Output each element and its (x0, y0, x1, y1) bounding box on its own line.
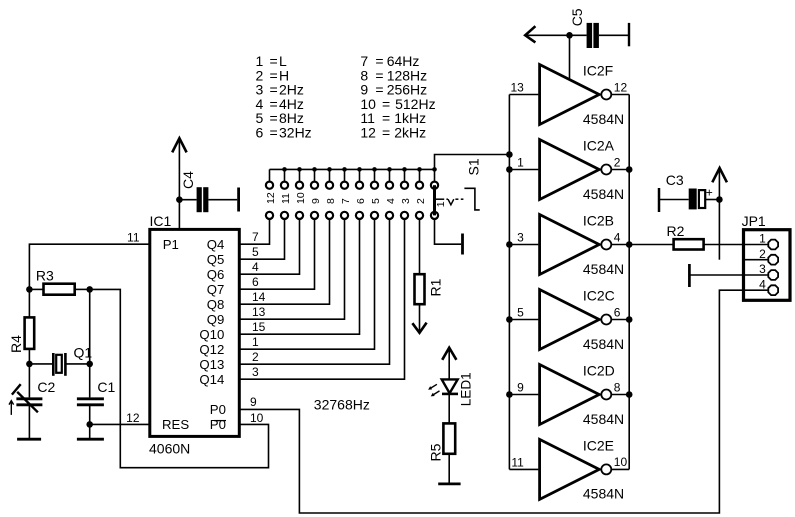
JP1 pins 1-4 (744, 232, 779, 295)
wire Q1 node down to C1 (89, 364, 91, 398)
resistor R4 (8, 289, 34, 364)
svg-text:P1: P1 (163, 237, 179, 252)
S1 actuator symbol (435, 188, 480, 210)
svg-text:4584N: 4584N (583, 111, 624, 127)
ground under C2 (17, 438, 41, 441)
S1 wiper bar at position 1 (433, 185, 436, 215)
S1 position 1 label (435, 201, 447, 207)
svg-text:Q5: Q5 (207, 252, 225, 267)
svg-text:P0: P0 (210, 402, 226, 417)
wire power to IC2F gate (569, 35, 571, 80)
svg-text:R1: R1 (428, 278, 444, 296)
svg-text:Q10: Q10 (199, 327, 224, 342)
wire IC1 pin 3 (Q14) to S1 position 3 (239, 219, 404, 379)
svg-text:+: + (706, 186, 713, 200)
wire C1 to RES node (89, 405, 91, 425)
svg-text:12: 12 (614, 80, 628, 94)
node: C1 bottom / RES wire (86, 421, 93, 428)
svg-text:C1: C1 (97, 379, 115, 395)
svg-text:=: = (270, 125, 278, 141)
supply arrow VCC above LED1 (442, 348, 456, 380)
svg-text:15: 15 (252, 320, 266, 334)
inverter input bus (508, 95, 510, 470)
svg-text:IC1: IC1 (150, 213, 172, 229)
svg-text:Q14: Q14 (199, 372, 224, 387)
S1 position number labels (265, 192, 427, 204)
svg-text:9: 9 (310, 198, 322, 204)
LED LED1 (428, 372, 474, 406)
node: VCC / C3 junction (716, 196, 723, 203)
svg-text:Q4: Q4 (207, 237, 225, 252)
supply arrow VCC above C4 (172, 138, 186, 229)
pin number 12 (RES) (126, 411, 140, 425)
wire IC1 pin 14 (Q8) to S1 position 8 (239, 219, 329, 304)
wire IC1 pin 1 (Q12) to S1 position 5 (239, 219, 374, 349)
node: R4 top / R3 left junction (26, 286, 33, 293)
wire IC1 pin 13 (Q9) to S1 position 7 (239, 219, 344, 319)
svg-text:5: 5 (517, 306, 524, 320)
wire IC1 pin 6 (Q7) to S1 position 9 (239, 219, 314, 289)
svg-text:32Hz: 32Hz (279, 125, 312, 141)
svg-text:2: 2 (759, 247, 766, 261)
resistor R5 (428, 423, 456, 483)
svg-text:=: = (382, 125, 390, 141)
svg-text:C4: C4 (180, 171, 196, 189)
junction dots on S1 common bus (282, 167, 437, 172)
svg-text:4: 4 (614, 230, 621, 244)
svg-text:4584N: 4584N (583, 336, 624, 352)
svg-text:Q8: Q8 (207, 297, 225, 312)
svg-text:R2: R2 (667, 223, 685, 239)
wire IC1 pin 5 (Q5) to S1 position 11 (239, 219, 284, 259)
svg-text:6: 6 (614, 305, 621, 319)
svg-text:JP1: JP1 (742, 213, 766, 229)
svg-text:IC2E: IC2E (583, 437, 614, 453)
wire IC1 pin 10 (P0 inverted) feedback loop (90, 289, 269, 467)
svg-text:C3: C3 (666, 172, 684, 188)
svg-text:3: 3 (400, 198, 412, 204)
svg-text:32768Hz: 32768Hz (314, 396, 370, 412)
wire C2 to ground (28, 405, 30, 438)
svg-text:12: 12 (126, 411, 140, 425)
svg-text:4584N: 4584N (583, 411, 624, 427)
label 4060N value of IC1 (149, 441, 190, 457)
inverter IC2F 4584N (pins 13 in / 12 out) (509, 63, 629, 127)
svg-text:Q1: Q1 (74, 345, 93, 361)
ground bar left of C3 (658, 188, 661, 212)
junction dots on input bus (506, 151, 513, 398)
switch S1 top common bus (270, 168, 435, 170)
svg-text:4: 4 (385, 198, 397, 204)
svg-text:IC2F: IC2F (583, 63, 613, 79)
svg-text:9: 9 (250, 395, 257, 409)
ground under R5 (438, 482, 460, 485)
svg-text:5: 5 (370, 198, 382, 204)
svg-text:IC2A: IC2A (583, 138, 615, 154)
resistor R3 (29, 267, 89, 294)
inverter IC2E 4584N (pins 11 in / 10 out) (509, 437, 629, 501)
wire node to ground (89, 424, 91, 438)
svg-text:4: 4 (759, 277, 766, 291)
svg-text:7: 7 (252, 230, 259, 244)
svg-text:R4: R4 (8, 335, 24, 353)
svg-text:1: 1 (759, 232, 766, 246)
capacitor C1 (77, 379, 116, 405)
wire IC1 pin 7 (Q4) to S1 position 12 (239, 219, 269, 244)
wire RES pin 12 (90, 423, 150, 425)
capacitor C4 (decoupling) (179, 171, 237, 212)
wire R3 node down to crystal node (89, 289, 91, 364)
svg-text:2kHz: 2kHz (394, 125, 426, 141)
svg-text:2: 2 (614, 155, 621, 169)
svg-text:C5: C5 (569, 8, 585, 26)
svg-text:1: 1 (517, 156, 524, 170)
svg-text:12: 12 (265, 192, 277, 204)
label S1 (466, 158, 482, 175)
svg-text:Q9: Q9 (207, 312, 225, 327)
svg-text:2: 2 (252, 350, 259, 364)
svg-text:14: 14 (252, 290, 266, 304)
svg-text:S1: S1 (466, 158, 482, 175)
svg-text:6: 6 (256, 125, 264, 141)
node: R3 right / feedback junction (86, 286, 93, 293)
IC IC1 body (150, 213, 240, 437)
node: C5 / IC2 power junction (566, 32, 573, 39)
wire LED1 to R5 (448, 394, 450, 424)
svg-text:10: 10 (250, 411, 264, 425)
ground bar right of C4 (237, 188, 240, 212)
wire IC1 pin 9 (P0) to JP1 pin 4 (239, 290, 743, 513)
svg-text:R5: R5 (428, 443, 444, 461)
wire Q1 node down to C2 (28, 364, 30, 398)
supply arrow (left) at C5 (525, 26, 586, 42)
wire S1 position-1 contact to ground (435, 219, 462, 244)
svg-text:3: 3 (252, 365, 259, 379)
svg-text:1: 1 (435, 201, 447, 207)
wire node to crystal Q1 (29, 363, 52, 365)
svg-text:12: 12 (360, 125, 376, 141)
svg-text:3: 3 (759, 262, 766, 276)
S1 top contact circles (266, 182, 438, 189)
svg-text:13: 13 (252, 305, 266, 319)
svg-text:IC2D: IC2D (583, 363, 615, 379)
svg-text:4060N: 4060N (149, 441, 190, 457)
wire IC1 pin 2 (Q13) to S1 position 4 (239, 219, 389, 364)
ground bar at JP1 pin 3 (688, 264, 691, 287)
svg-text:8: 8 (614, 380, 621, 394)
resistor R2 (629, 223, 768, 250)
svg-text:6: 6 (252, 275, 259, 289)
svg-text:5: 5 (252, 245, 259, 259)
node: crystal left / C2 top (26, 361, 33, 368)
svg-text:C2: C2 (37, 379, 55, 395)
svg-text:RES: RES (162, 417, 189, 432)
wire JP1 pin 3 to ground (690, 274, 743, 276)
trimmer capacitor C2 (9, 379, 56, 415)
svg-text:R3: R3 (36, 267, 54, 283)
crystal Q1 (53, 345, 92, 376)
svg-text:P0: P0 (210, 417, 226, 432)
connector JP1 body (742, 213, 790, 300)
svg-text:8: 8 (325, 198, 337, 204)
node: VCC / C4 junction (176, 196, 183, 203)
svg-text:1: 1 (252, 335, 259, 349)
svg-text:11: 11 (280, 193, 292, 204)
wire IC1 pin 11 (P1) to R3/R4 node (29, 244, 149, 289)
svg-text:10: 10 (295, 192, 307, 204)
inverter IC2C 4584N (pins 5 in / 6 out) (509, 288, 629, 352)
svg-text:4: 4 (252, 260, 259, 274)
arrow (supply) below R1 (412, 323, 426, 333)
capacitor C5 (decoupling) (569, 8, 628, 48)
svg-text:6: 6 (355, 198, 367, 204)
svg-text:4584N: 4584N (583, 186, 624, 202)
svg-text:10: 10 (614, 455, 628, 469)
ground under C1 (77, 438, 104, 441)
resistor R1 (415, 219, 444, 331)
svg-text:2: 2 (415, 198, 427, 204)
svg-text:Q13: Q13 (199, 357, 224, 372)
label 32768Hz crystal frequency (314, 396, 370, 412)
node: crystal right / C1 top (86, 361, 93, 368)
svg-text:9: 9 (517, 381, 524, 395)
svg-text:IC2C: IC2C (583, 288, 615, 304)
S1 bottom contact circles (266, 212, 438, 219)
ground bar at S1 (461, 234, 464, 255)
svg-text:Q12: Q12 (199, 342, 224, 357)
wire IC1 pin 15 (Q10) to S1 position 6 (239, 219, 359, 334)
svg-text:LED1: LED1 (459, 372, 474, 406)
wire IC1 pin 4 (Q6) to S1 position 10 (239, 219, 299, 274)
svg-text:Q6: Q6 (207, 267, 225, 282)
inverter IC2D 4584N (pins 9 in / 8 out) (509, 363, 629, 427)
inverter IC2A 4584N (pins 1 in / 2 out) (509, 138, 629, 202)
wire S1 common bus to inverter input bus (435, 155, 510, 170)
junction dots on output bus (626, 166, 633, 398)
svg-text:3: 3 (517, 231, 524, 245)
supply arrow VCC at JP1 (712, 168, 727, 260)
svg-text:7: 7 (340, 198, 352, 204)
svg-text:4584N: 4584N (583, 486, 624, 502)
ground bar right of C5 (628, 23, 630, 46)
capacitor C3 (electrolytic) (659, 172, 719, 210)
svg-text:13: 13 (510, 81, 524, 95)
svg-text:11: 11 (127, 231, 140, 245)
svg-text:4584N: 4584N (583, 261, 624, 277)
legend: switch position frequency table (256, 53, 436, 141)
svg-text:IC2B: IC2B (583, 213, 614, 229)
inverter output bus (628, 95, 630, 470)
svg-text:11: 11 (511, 455, 524, 469)
svg-text:Q7: Q7 (207, 282, 225, 297)
S1 top contact stubs (270, 169, 435, 181)
inverter IC2B 4584N (pins 3 in / 4 out) (509, 213, 629, 277)
pin number 11 (P1) (127, 231, 140, 245)
